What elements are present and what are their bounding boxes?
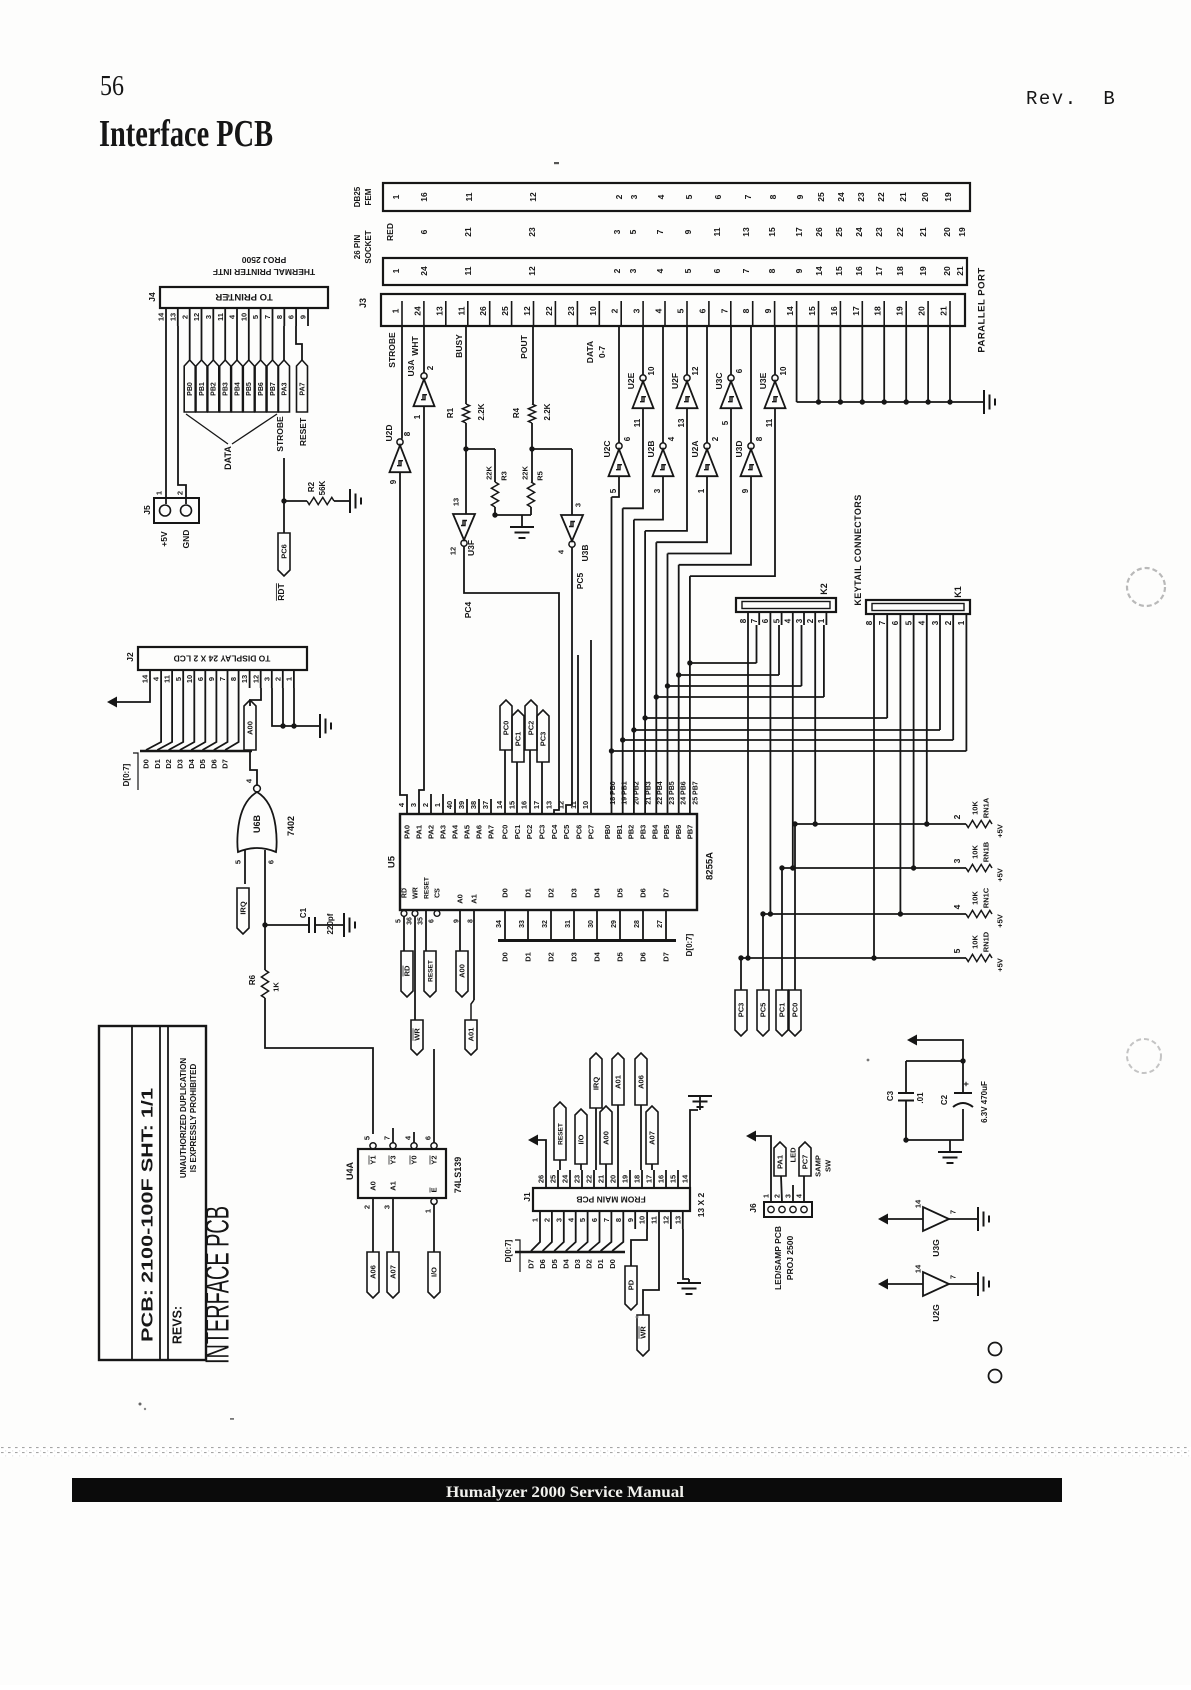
wire A00 to U6B out <box>250 750 257 785</box>
svg-text:2: 2 <box>180 315 189 319</box>
svg-text:5: 5 <box>578 1218 587 1222</box>
net POUT <box>519 334 529 358</box>
bus labels D0-D7 <box>142 758 230 768</box>
svg-text:10: 10 <box>185 675 194 683</box>
wire STROBE <box>401 326 403 439</box>
svg-text:8: 8 <box>755 436 764 441</box>
svg-text:DB25: DB25 <box>353 186 362 207</box>
bus D0-D7 8255 <box>498 939 676 942</box>
svg-text:9: 9 <box>389 479 398 484</box>
label J1 <box>522 1192 532 1202</box>
svg-text:7: 7 <box>655 229 665 234</box>
svg-text:+5V: +5V <box>159 531 169 547</box>
svg-text:UNAUTHORIZED DUPLICATION: UNAUTHORIZED DUPLICATION <box>179 1058 188 1179</box>
svg-text:10: 10 <box>588 306 598 316</box>
wire U3F input <box>465 449 467 514</box>
svg-text:22: 22 <box>895 227 905 237</box>
svg-text:24: 24 <box>412 306 422 316</box>
svg-text:10K: 10K <box>971 935 980 949</box>
svg-text:10: 10 <box>581 801 590 809</box>
title INTERFACE PCB <box>199 1206 236 1364</box>
svg-text:PA7: PA7 <box>487 825 496 839</box>
ground at R2 <box>350 489 361 513</box>
svg-text:12: 12 <box>528 192 538 202</box>
svg-text:PB6: PB6 <box>674 825 683 840</box>
capacitor C1 220pf <box>265 907 344 934</box>
svg-text:D[0:7]: D[0:7] <box>504 1239 513 1262</box>
svg-text:RDT: RDT <box>276 582 286 600</box>
svg-text:D3: D3 <box>573 1259 582 1269</box>
net pill IRQ j1 <box>590 1053 602 1170</box>
svg-text:IRQ: IRQ <box>592 1077 601 1091</box>
wire junction to R3 <box>466 449 495 482</box>
svg-text:26 PIN: 26 PIN <box>353 235 362 260</box>
label D[0:7] u5 <box>685 933 694 956</box>
svg-text:DATA: DATA <box>223 446 233 470</box>
svg-text:PC5: PC5 <box>562 825 571 840</box>
svg-text:11: 11 <box>216 313 225 321</box>
svg-text:7: 7 <box>741 268 751 273</box>
svg-text:1: 1 <box>817 618 826 623</box>
svg-text:PA4: PA4 <box>451 824 460 839</box>
label 26 PIN SOCKET <box>353 230 373 263</box>
svg-text:J6: J6 <box>748 1203 758 1213</box>
svg-text:11: 11 <box>464 192 474 201</box>
svg-text:2.2K: 2.2K <box>477 403 486 420</box>
svg-text:PCB: 2100-100F SHT: 1/1: PCB: 2100-100F SHT: 1/1 <box>139 1087 156 1342</box>
svg-text:6: 6 <box>891 620 900 625</box>
svg-text:WR: WR <box>639 1326 648 1339</box>
svg-text:A0: A0 <box>369 1181 378 1191</box>
fiducial circles <box>989 1343 1002 1383</box>
wire U3F out to PC4 <box>464 547 559 815</box>
svg-text:PB4: PB4 <box>650 824 659 839</box>
svg-text:7: 7 <box>719 308 729 313</box>
svg-text:3: 3 <box>574 503 583 507</box>
net STROBE <box>387 332 397 368</box>
svg-text:3: 3 <box>628 268 638 273</box>
wire PA4-PA7 stubs <box>455 799 491 814</box>
svg-text:24: 24 <box>854 227 864 237</box>
net pill A06 j1 <box>635 1053 647 1170</box>
inverter U3B <box>557 503 590 562</box>
svg-text:A00: A00 <box>246 721 255 735</box>
svg-text:17: 17 <box>532 801 541 809</box>
svg-text:PA2: PA2 <box>427 825 436 839</box>
svg-text:16: 16 <box>419 192 429 202</box>
ground J1 pin13 <box>677 1229 701 1294</box>
specks <box>139 162 870 1420</box>
resistor RN1B 10K pull-up row <box>782 841 1005 882</box>
svg-text:5: 5 <box>952 948 962 953</box>
svg-text:IRQ: IRQ <box>239 901 248 915</box>
svg-text:9: 9 <box>683 229 693 234</box>
svg-text:I/O: I/O <box>577 1134 586 1144</box>
svg-text:3: 3 <box>653 488 662 493</box>
connector J1 <box>533 1188 690 1211</box>
svg-text:15: 15 <box>807 306 817 316</box>
label GND <box>181 530 191 549</box>
svg-text:25: 25 <box>816 192 826 202</box>
svg-text:D2: D2 <box>547 952 556 962</box>
K2 pin stubs <box>739 612 827 625</box>
title text PCB 2100-100F <box>139 1087 156 1342</box>
svg-text:1: 1 <box>763 1194 770 1198</box>
svg-text:23: 23 <box>573 1175 582 1183</box>
svg-text:2: 2 <box>426 365 435 370</box>
svg-text:U6B: U6B <box>252 815 262 834</box>
svg-text:I/O: I/O <box>430 1267 439 1277</box>
net RESET under PA7 <box>298 417 308 446</box>
svg-text:6: 6 <box>697 308 707 313</box>
svg-text:3: 3 <box>612 229 622 234</box>
svg-text:RN1B: RN1B <box>982 841 991 862</box>
svg-text:11: 11 <box>463 266 473 275</box>
svg-text:D2: D2 <box>164 759 173 769</box>
svg-text:2: 2 <box>614 194 624 199</box>
svg-text:14: 14 <box>681 1174 690 1183</box>
svg-text:6: 6 <box>424 1136 433 1140</box>
svg-text:D0: D0 <box>142 759 151 769</box>
svg-text:POUT: POUT <box>519 334 529 358</box>
svg-text:2: 2 <box>176 491 185 495</box>
wire staircase gate inputs to PB bus <box>612 408 776 576</box>
svg-text:11: 11 <box>633 418 642 427</box>
svg-text:9: 9 <box>299 315 308 319</box>
svg-text:PB4: PB4 <box>234 382 241 396</box>
svg-text:4: 4 <box>952 904 962 909</box>
svg-text:PC3: PC3 <box>737 1003 746 1018</box>
svg-text:WHT: WHT <box>410 336 420 356</box>
svg-text:RD: RD <box>401 888 408 898</box>
svg-text:24: 24 <box>836 192 846 202</box>
label LED/SAMP PCB <box>773 1226 783 1290</box>
connector J3 <box>381 294 965 326</box>
svg-text:PC3: PC3 <box>538 825 547 840</box>
svg-text:21: 21 <box>955 266 965 276</box>
svg-text:11: 11 <box>163 675 172 683</box>
svg-text:25: 25 <box>500 306 510 316</box>
J4 pin stubs <box>157 308 308 326</box>
svg-text:SAMP: SAMP <box>814 1155 823 1177</box>
svg-text:11: 11 <box>456 306 466 315</box>
punch hole top <box>1127 568 1165 606</box>
svg-text:10K: 10K <box>971 845 980 859</box>
svg-text:A01: A01 <box>614 1075 623 1089</box>
svg-text:KEYTAIL CONNECTORS: KEYTAIL CONNECTORS <box>853 494 863 605</box>
svg-text:3: 3 <box>632 308 642 313</box>
ground C1 <box>344 913 355 937</box>
svg-text:15: 15 <box>767 227 777 237</box>
svg-text:10K: 10K <box>971 801 980 815</box>
wire PC6 PC7 stubs <box>578 640 591 814</box>
svg-text:U2F: U2F <box>670 373 680 389</box>
wires J3 pins 14-21 <box>797 326 950 402</box>
svg-text:4: 4 <box>784 618 793 623</box>
label J3 <box>358 298 368 308</box>
net BUSY <box>454 334 464 358</box>
svg-text:D0: D0 <box>501 888 510 898</box>
svg-text:K1: K1 <box>953 586 963 598</box>
inverter U2F <box>670 326 700 427</box>
svg-text:23: 23 <box>527 227 537 237</box>
svg-text:5: 5 <box>251 315 260 319</box>
connector J5 <box>154 491 199 523</box>
label K1 <box>953 586 963 598</box>
svg-text:23: 23 <box>856 192 866 202</box>
svg-text:6.3V 470uF: 6.3V 470uF <box>980 1081 989 1123</box>
svg-text:34: 34 <box>496 920 503 928</box>
svg-text:9: 9 <box>794 268 804 273</box>
svg-text:20: 20 <box>942 227 952 237</box>
net pill RESET j1 <box>554 1102 566 1170</box>
net pill WR j1 <box>637 1229 659 1356</box>
svg-text:3: 3 <box>952 858 962 863</box>
label J2 <box>125 652 135 662</box>
svg-text:11: 11 <box>650 1216 659 1224</box>
svg-text:19 PB1: 19 PB1 <box>622 781 629 804</box>
svg-text:14: 14 <box>785 306 795 316</box>
svg-text:16: 16 <box>657 1175 666 1183</box>
inverter U3F <box>449 498 476 556</box>
svg-text:1: 1 <box>433 803 442 807</box>
wire J2 pin14 to +5V arrow <box>107 688 150 708</box>
connector J6 <box>763 1194 812 1217</box>
net pills PB0-PB7 to printer <box>184 326 278 412</box>
svg-text:16: 16 <box>854 266 864 276</box>
U5 data pins <box>496 887 671 940</box>
footer banner <box>72 1478 1062 1502</box>
svg-text:U5: U5 <box>386 855 397 868</box>
U5 PC labels <box>495 800 596 839</box>
wire U3A input to 8255 PA1 <box>419 406 424 814</box>
svg-text:PA0: PA0 <box>403 825 412 839</box>
svg-text:18: 18 <box>873 306 883 316</box>
svg-text:33: 33 <box>519 920 526 928</box>
svg-text:PC7: PC7 <box>587 825 596 840</box>
svg-text:19: 19 <box>621 1175 630 1183</box>
svg-text:21: 21 <box>898 192 908 202</box>
J2 pin stubs <box>141 670 294 688</box>
label THERMAL PRINTER INTF <box>213 267 315 277</box>
wires PB0-PB7 verticals <box>609 497 693 814</box>
U5 control pins <box>395 877 441 925</box>
svg-text:PB7: PB7 <box>686 825 695 840</box>
J6 pin3 stub <box>792 1185 794 1202</box>
label DB25 FEM <box>353 186 373 207</box>
svg-text:14: 14 <box>914 1264 923 1273</box>
inverter U3D <box>734 326 764 493</box>
svg-text:7: 7 <box>750 618 759 623</box>
svg-text:12: 12 <box>662 1216 671 1224</box>
svg-text:36: 36 <box>406 917 413 925</box>
svg-text:7: 7 <box>949 1275 958 1279</box>
svg-text:RESET: RESET <box>557 1123 564 1145</box>
inverter U2D <box>384 424 412 484</box>
svg-text:13 X 2: 13 X 2 <box>696 1192 706 1217</box>
svg-text:220pf: 220pf <box>326 913 335 934</box>
svg-text:A01: A01 <box>467 1028 476 1042</box>
svg-text:23: 23 <box>874 227 884 237</box>
wire PA3 stub <box>442 794 444 814</box>
svg-text:13: 13 <box>240 675 249 683</box>
K1 pin stubs <box>865 614 967 628</box>
svg-text:J5: J5 <box>142 505 152 515</box>
svg-text:Y0: Y0 <box>410 1155 419 1164</box>
svg-text:A00: A00 <box>602 1131 611 1145</box>
svg-text:+5V: +5V <box>996 868 1005 882</box>
svg-text:7402: 7402 <box>286 816 296 836</box>
svg-text:PC5: PC5 <box>759 1003 768 1018</box>
U6B input pins <box>234 850 276 925</box>
svg-text:4: 4 <box>667 436 676 441</box>
svg-text:1: 1 <box>413 414 422 419</box>
svg-text:17: 17 <box>645 1175 654 1183</box>
svg-text:A07: A07 <box>389 1265 398 1279</box>
svg-text:3: 3 <box>204 315 213 319</box>
svg-text:D2: D2 <box>585 1259 594 1269</box>
svg-text:15: 15 <box>834 266 844 276</box>
resistor R6 1K <box>248 925 281 998</box>
wire PC2 pill <box>525 700 537 814</box>
svg-text:12: 12 <box>251 675 260 683</box>
svg-text:PB1: PB1 <box>199 382 206 396</box>
resistor RN1C 10K pull-up row <box>763 887 1005 928</box>
svg-text:4: 4 <box>656 194 666 199</box>
svg-text:23: 23 <box>566 306 576 316</box>
inverter U2E <box>626 326 656 427</box>
wire PC1 pill <box>512 710 524 814</box>
svg-text:20: 20 <box>917 306 927 316</box>
svg-text:21: 21 <box>597 1175 606 1183</box>
svg-text:2.2K: 2.2K <box>543 403 552 420</box>
svg-text:7: 7 <box>743 194 753 199</box>
svg-text:21: 21 <box>938 306 948 316</box>
svg-text:8: 8 <box>229 677 238 681</box>
capacitor C3 .01 <box>886 1090 925 1103</box>
svg-text:5: 5 <box>174 677 183 681</box>
svg-text:D4: D4 <box>561 1258 570 1268</box>
svg-text:32: 32 <box>542 920 549 928</box>
svg-text:A0: A0 <box>456 894 465 904</box>
svg-text:D5: D5 <box>550 1259 559 1269</box>
svg-text:2: 2 <box>363 1205 372 1209</box>
svg-text:8: 8 <box>403 431 412 436</box>
connector DB25 FEM pin row <box>383 183 970 211</box>
net pill PA7 <box>296 326 308 412</box>
svg-text:PD: PD <box>627 1279 636 1290</box>
svg-text:RESET: RESET <box>427 960 434 982</box>
svg-text:PC0: PC0 <box>791 1003 800 1018</box>
net pill PA3 <box>279 326 290 412</box>
svg-text:10K: 10K <box>971 891 980 905</box>
svg-text:J3: J3 <box>358 298 368 308</box>
svg-text:22K: 22K <box>521 466 530 480</box>
svg-text:7: 7 <box>602 1218 611 1222</box>
connector K2 <box>736 598 836 612</box>
wire J4 pin13 to J5 <box>178 326 186 504</box>
svg-text:DATA: DATA <box>585 341 595 363</box>
resistor R1 2.2K <box>446 403 486 423</box>
svg-text:26: 26 <box>478 306 488 316</box>
svg-text:U2A: U2A <box>690 440 700 457</box>
svg-text:10: 10 <box>638 1216 647 1224</box>
svg-text:5: 5 <box>772 618 781 623</box>
svg-text:U2E: U2E <box>626 372 636 389</box>
svg-text:PB3: PB3 <box>639 825 648 840</box>
svg-text:D4: D4 <box>593 887 602 897</box>
net STROBE under PA3 <box>275 416 285 452</box>
svg-text:8: 8 <box>741 308 751 313</box>
net label PC5 <box>575 572 585 589</box>
svg-text:2: 2 <box>711 436 720 441</box>
svg-text:19: 19 <box>918 266 928 276</box>
wire junction to U3B <box>532 449 572 515</box>
svg-text:D6: D6 <box>639 952 648 962</box>
resistor R5 22K <box>521 449 545 507</box>
net DATA 0-7 <box>585 341 607 363</box>
svg-text:PB0: PB0 <box>603 825 612 840</box>
svg-text:SOCKET: SOCKET <box>364 230 373 263</box>
svg-text:20 PB2: 20 PB2 <box>634 781 641 804</box>
svg-text:10: 10 <box>779 366 788 375</box>
svg-text:18: 18 <box>633 1175 642 1183</box>
svg-text:2: 2 <box>543 1218 552 1222</box>
svg-text:20: 20 <box>942 266 952 276</box>
connector 26 pin socket row <box>383 258 967 285</box>
resistor RN1D 10K pull-up row <box>741 931 1005 972</box>
svg-text:PA1: PA1 <box>415 825 424 839</box>
svg-text:D1: D1 <box>524 888 533 898</box>
wires K1 pins to sense rows <box>871 628 929 961</box>
svg-text:16: 16 <box>829 306 839 316</box>
svg-text:LED: LED <box>789 1147 798 1163</box>
punch hole bottom <box>1127 1039 1161 1073</box>
net pill A01 u5 <box>465 910 477 1055</box>
net pill PC7 <box>799 1142 811 1202</box>
svg-text:PA1: PA1 <box>776 1155 785 1169</box>
svg-text:3: 3 <box>383 1205 392 1209</box>
svg-text:11: 11 <box>712 227 722 236</box>
svg-text:4: 4 <box>653 308 663 313</box>
wire U2D input to 8255 PA0 <box>400 473 407 815</box>
svg-text:5: 5 <box>683 268 693 273</box>
svg-text:6: 6 <box>428 919 435 923</box>
svg-text:1: 1 <box>391 194 401 199</box>
svg-text:23 PB5: 23 PB5 <box>669 781 676 804</box>
svg-text:RESET: RESET <box>423 877 430 899</box>
net pill I/O u4a <box>428 1252 440 1298</box>
svg-text:PC3: PC3 <box>539 732 548 747</box>
wire-color row 26 PIN <box>385 223 967 241</box>
net pill PA1 <box>774 1142 798 1202</box>
svg-text:TO PRINTER: TO PRINTER <box>215 291 272 302</box>
svg-text:9: 9 <box>795 194 805 199</box>
svg-text:C3: C3 <box>886 1090 895 1101</box>
svg-text:22: 22 <box>544 306 554 316</box>
svg-text:PC7: PC7 <box>801 1155 810 1170</box>
label PROJ 2500 j6 <box>785 1236 795 1281</box>
svg-text:D0: D0 <box>501 952 510 962</box>
svg-text:29: 29 <box>611 920 618 928</box>
svg-text:STROBE: STROBE <box>275 416 285 452</box>
label K2 <box>819 583 829 595</box>
svg-text:6: 6 <box>267 860 276 864</box>
ground parallel-port shield <box>984 390 995 414</box>
title text unauthorized <box>179 1058 198 1179</box>
svg-text:9: 9 <box>741 488 750 493</box>
inverter U2C <box>602 326 632 493</box>
